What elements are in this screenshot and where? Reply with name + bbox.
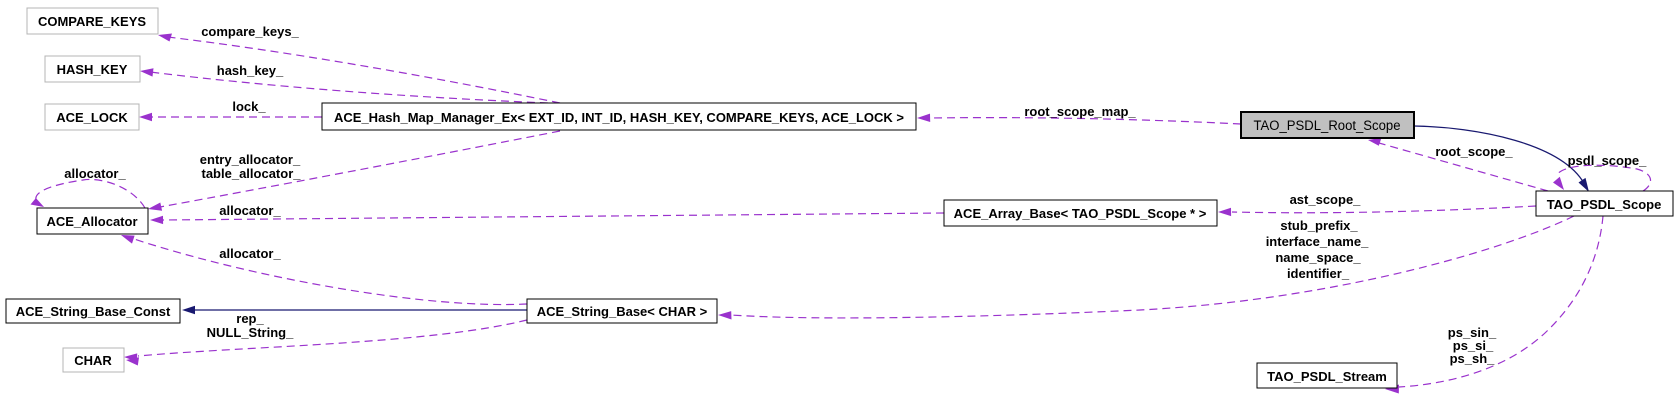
svg-text:ps_sh_: ps_sh_ xyxy=(1450,351,1496,366)
node ACE_String_Base xyxy=(527,299,717,323)
svg-text:NULL_String_: NULL_String_ xyxy=(207,325,294,340)
node HASH_KEY xyxy=(45,56,140,82)
svg-text:ACE_String_Base_Const: ACE_String_Base_Const xyxy=(16,304,171,319)
node TAO_PSDL_Root_Scope xyxy=(1241,112,1414,138)
edge inheritance TAO_PSDL_Root_Scope to TAO_PSDL_Scope xyxy=(1414,126,1589,192)
svg-text:root_scope_: root_scope_ xyxy=(1435,144,1513,159)
svg-text:table_allocator_: table_allocator_ xyxy=(202,166,302,181)
svg-text:allocator_: allocator_ xyxy=(219,203,281,218)
svg-text:ACE_String_Base< CHAR >: ACE_String_Base< CHAR > xyxy=(537,304,708,319)
edge root_scope_ xyxy=(1368,138,1548,191)
svg-text:TAO_PSDL_Scope: TAO_PSDL_Scope xyxy=(1547,197,1662,212)
edge ps_sin_ ps_si_ ps_sh_ xyxy=(1385,216,1603,394)
node CHAR xyxy=(63,348,124,372)
node ACE_LOCK xyxy=(45,104,139,130)
svg-text:ACE_Array_Base< TAO_PSDL_Scope: ACE_Array_Base< TAO_PSDL_Scope * > xyxy=(954,206,1207,221)
svg-text:TAO_PSDL_Stream: TAO_PSDL_Stream xyxy=(1267,369,1387,384)
svg-text:compare_keys_: compare_keys_ xyxy=(201,24,299,39)
edge allocator_ from ACE_String_Base xyxy=(121,235,527,305)
node ACE_Allocator xyxy=(37,208,148,234)
svg-text:CHAR: CHAR xyxy=(74,353,112,368)
edge compare_keys_ xyxy=(158,24,560,103)
edge psdl_scope_ self loop xyxy=(1553,153,1651,191)
edge entry_allocator_ table_allocator_ xyxy=(148,131,560,211)
svg-text:rep_: rep_ xyxy=(236,311,264,326)
svg-text:psdl_scope_: psdl_scope_ xyxy=(1568,153,1648,168)
edge lock_ xyxy=(139,99,322,121)
svg-text:lock_: lock_ xyxy=(232,99,266,114)
svg-text:allocator_: allocator_ xyxy=(64,166,126,181)
node TAO_PSDL_Scope xyxy=(1536,191,1673,216)
svg-text:ACE_Allocator: ACE_Allocator xyxy=(46,214,137,229)
node ACE_Array_Base xyxy=(944,200,1217,226)
svg-text:root_scope_map_: root_scope_map_ xyxy=(1024,104,1136,119)
svg-text:ACE_LOCK: ACE_LOCK xyxy=(56,110,128,125)
svg-text:name_space_: name_space_ xyxy=(1275,250,1361,265)
node ACE_String_Base_Const xyxy=(6,299,180,323)
svg-text:HASH_KEY: HASH_KEY xyxy=(57,62,128,77)
svg-text:stub_prefix_: stub_prefix_ xyxy=(1280,218,1358,233)
svg-text:TAO_PSDL_Root_Scope: TAO_PSDL_Root_Scope xyxy=(1254,118,1401,133)
svg-text:COMPARE_KEYS: COMPARE_KEYS xyxy=(38,14,146,29)
svg-text:ast_scope_: ast_scope_ xyxy=(1290,192,1362,207)
edge root_scope_map_ xyxy=(917,104,1241,124)
edge inheritance ACE_String_Base to ACE_String_Base_Const xyxy=(182,306,527,315)
svg-text:identifier_: identifier_ xyxy=(1287,266,1350,281)
edge allocator_ from ACE_Array_Base xyxy=(150,203,944,224)
edge allocator_ self loop on ACE_Allocator xyxy=(31,166,146,208)
edge stub_prefix_ interface_name_ name_space_ identifier_ xyxy=(718,216,1574,320)
svg-text:allocator_: allocator_ xyxy=(219,246,281,261)
node ACE_Hash_Map_Manager_Ex xyxy=(322,103,916,130)
node TAO_PSDL_Stream xyxy=(1257,363,1397,388)
edge rep_ NULL_String_ xyxy=(124,311,527,366)
svg-text:ACE_Hash_Map_Manager_Ex< EXT_I: ACE_Hash_Map_Manager_Ex< EXT_ID, INT_ID,… xyxy=(334,110,904,125)
svg-text:entry_allocator_: entry_allocator_ xyxy=(200,152,301,167)
node COMPARE_KEYS xyxy=(27,8,158,34)
edge hash_key_ xyxy=(140,63,548,103)
edge ast_scope_ xyxy=(1218,192,1536,216)
svg-text:interface_name_: interface_name_ xyxy=(1266,234,1369,249)
svg-text:hash_key_: hash_key_ xyxy=(217,63,284,78)
